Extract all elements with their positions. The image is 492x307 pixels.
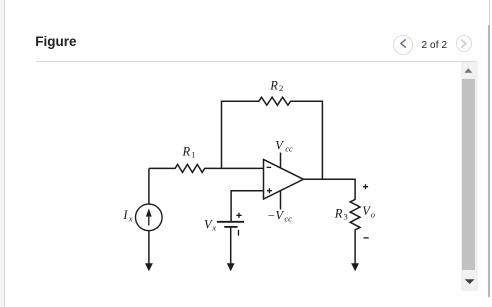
svg-text:−V: −V	[267, 208, 284, 222]
svg-text:2: 2	[279, 83, 283, 93]
svg-text:cc: cc	[285, 144, 293, 154]
svg-text:I: I	[122, 208, 128, 222]
svg-text:3: 3	[344, 212, 348, 222]
svg-text:V: V	[275, 138, 284, 152]
svg-text:R: R	[269, 78, 278, 92]
svg-text:x: x	[128, 213, 133, 223]
svg-text:1: 1	[191, 149, 195, 159]
svg-text:o: o	[371, 209, 375, 219]
svg-text:R: R	[182, 144, 191, 158]
svg-text:R: R	[334, 206, 343, 220]
svg-text:cc: cc	[284, 214, 292, 224]
svg-text:x: x	[211, 223, 216, 233]
